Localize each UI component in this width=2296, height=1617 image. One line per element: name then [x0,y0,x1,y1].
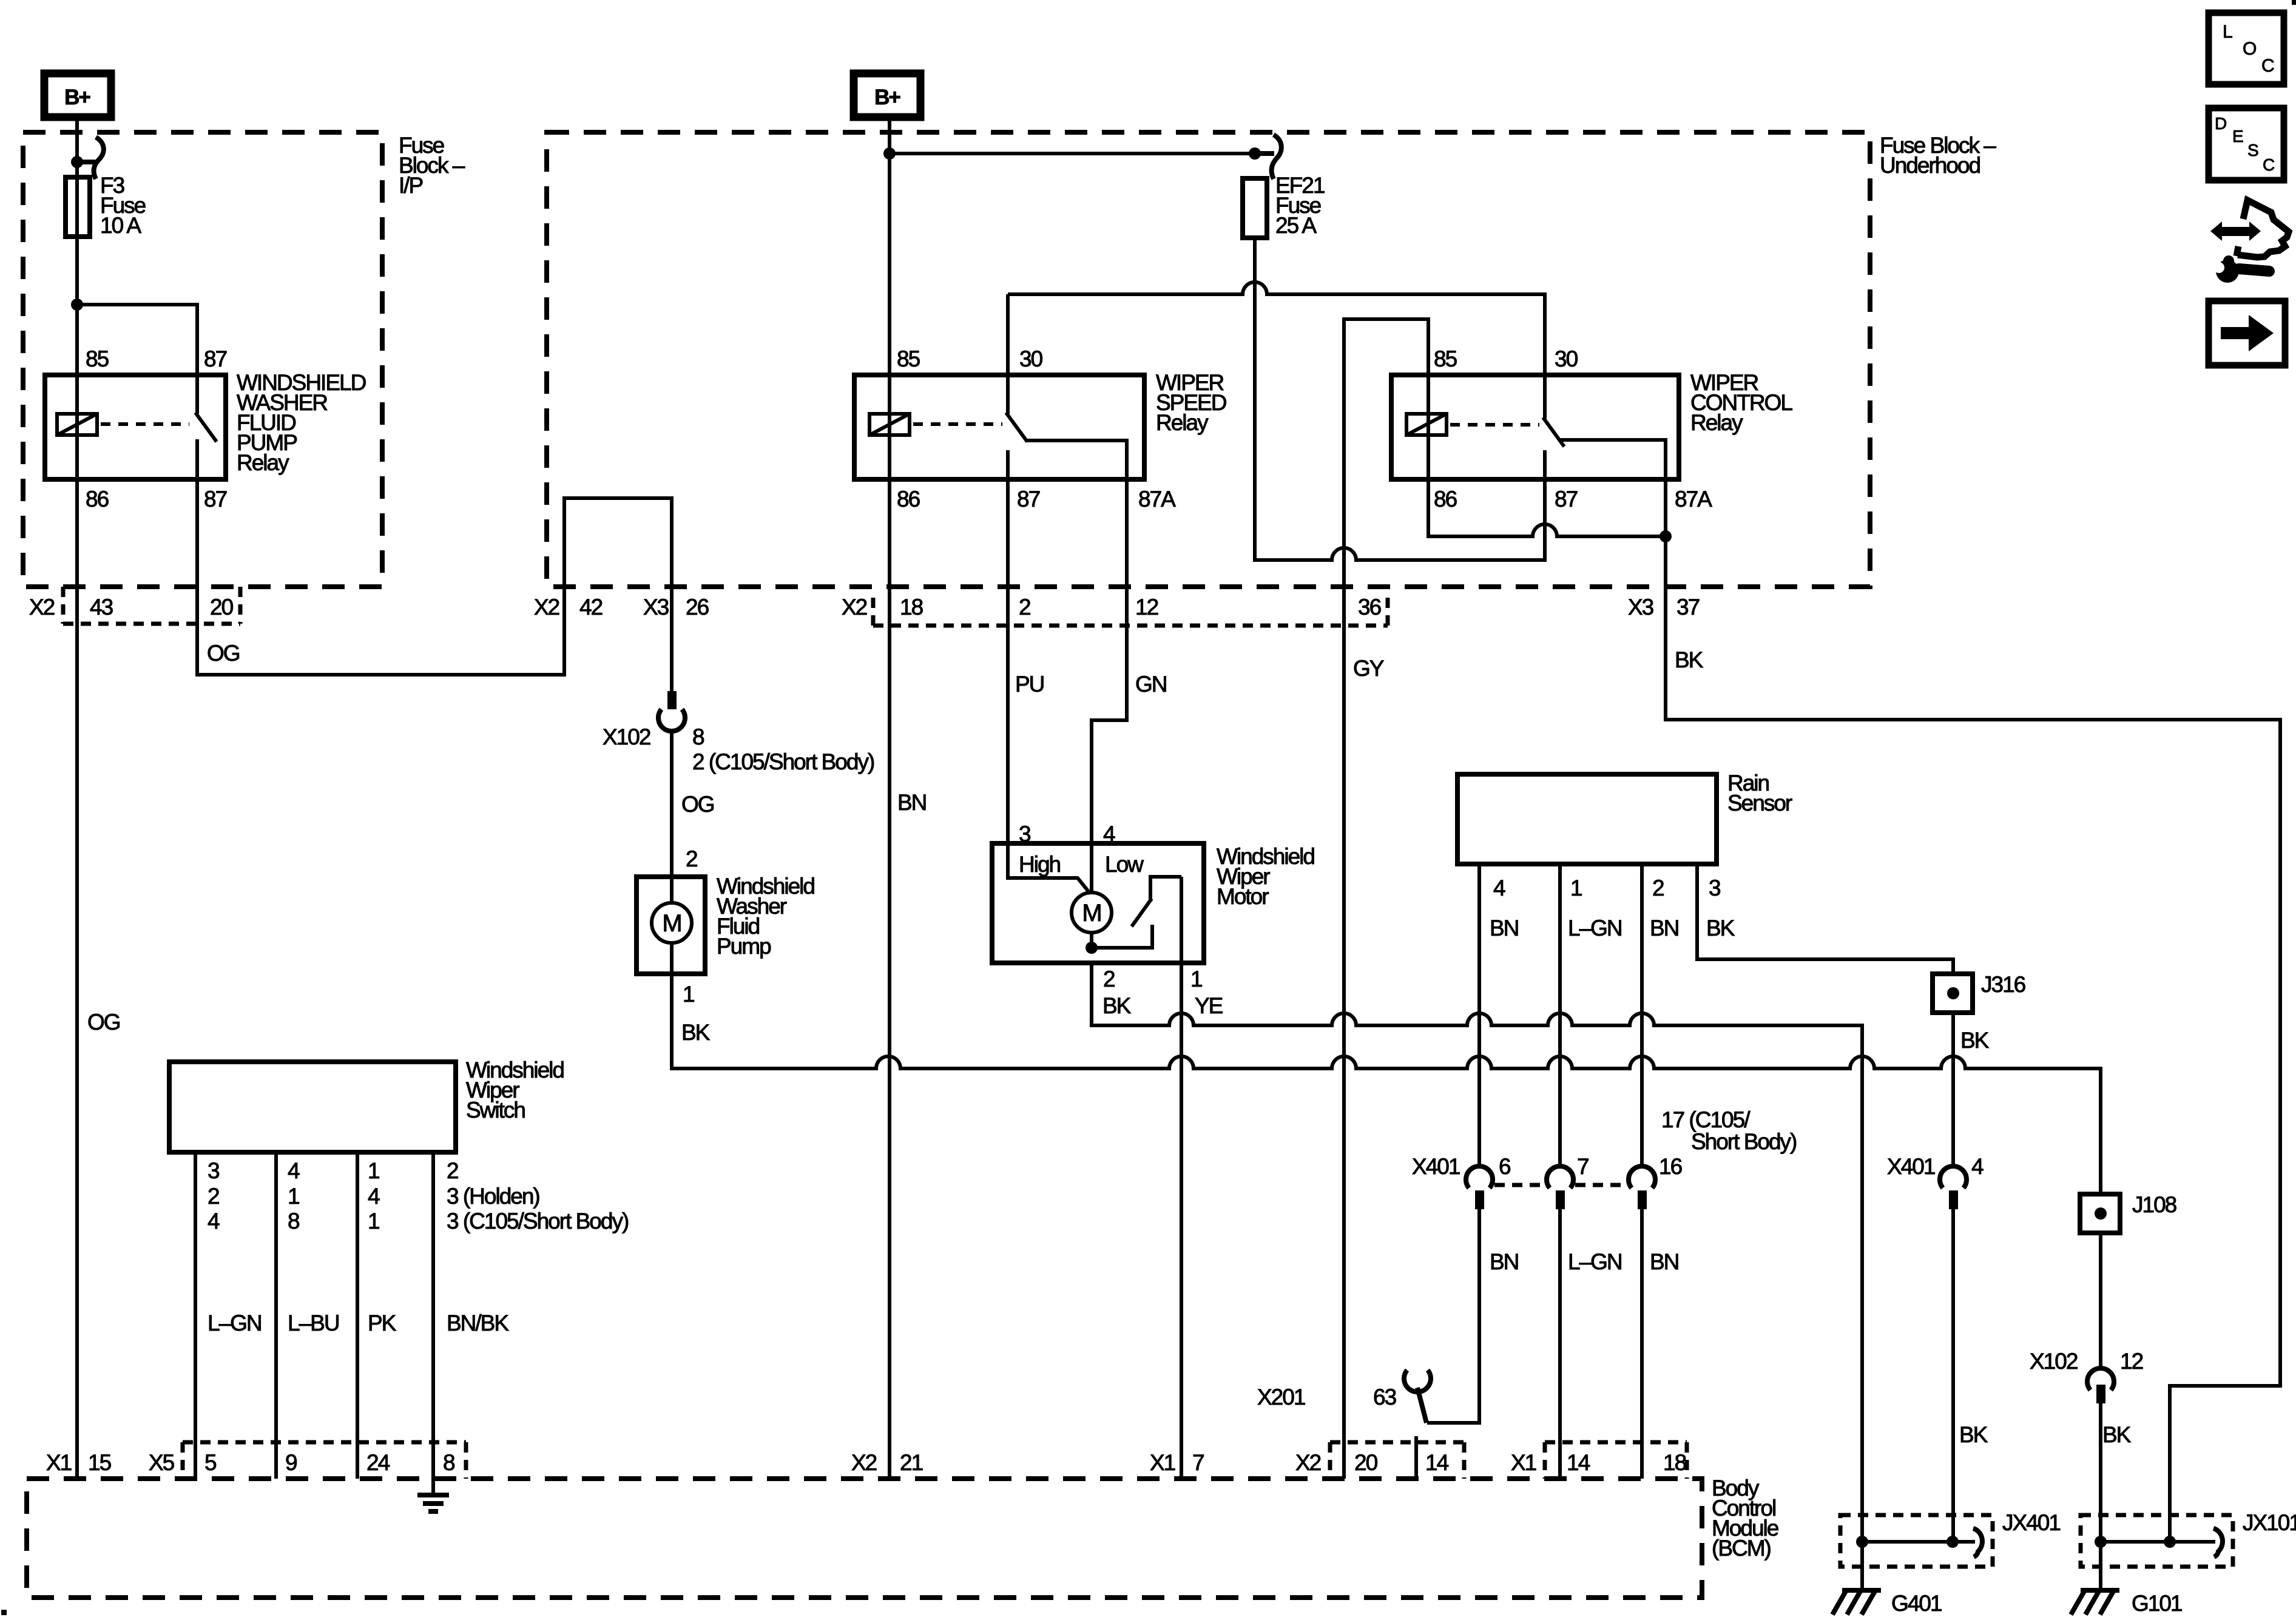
svg-text:X3: X3 [643,595,669,619]
svg-text:X1: X1 [46,1450,72,1475]
park switch lower contact [1092,925,1152,948]
svg-text:3: 3 [1709,876,1720,900]
relay R1 coil [57,414,97,435]
svg-text:BN: BN [1490,1249,1518,1274]
wire PU speed 87 to motor pin 3 High [1008,479,1090,894]
page mark bottom left [1,1610,7,1615]
wire B+2 junction to fuse EF21 [890,152,1255,155]
svg-text:9: 9 [285,1450,297,1475]
relay R2 87A contact [1025,441,1127,479]
connector label X2 bracket pins 18 2 12 36 [873,598,1388,626]
wire BK rain pin 3 to J316 [1697,864,1953,976]
wire L-GN wiper switch to BCM X5-5 [194,1152,197,1479]
JX401 curl [1973,1528,1982,1557]
svg-text:X102: X102 [2030,1349,2078,1374]
svg-text:L–GN: L–GN [1568,1249,1622,1274]
switch pin labels column 2 [288,1158,300,1234]
svg-text:8: 8 [443,1450,454,1475]
body control module dashed box [27,1479,1702,1598]
svg-text:18: 18 [900,595,923,619]
svg-text:1: 1 [368,1158,379,1183]
wire GN speed 87A to motor pin 4 Low [1092,479,1127,893]
ground G101 [2071,1589,2119,1615]
junction dot JX401 right [1947,1536,1959,1548]
svg-text:87: 87 [204,346,227,371]
svg-text:(BCM): (BCM) [1712,1536,1771,1561]
fuse F3 [66,173,146,238]
svg-text:Switch: Switch [466,1098,525,1122]
relay R3 name label [1690,370,1792,435]
connector X2 21 labels [851,1450,923,1475]
svg-text:X401: X401 [1887,1154,1935,1179]
icon DESC box [2209,108,2284,180]
svg-text:4: 4 [288,1158,300,1183]
svg-text:GN: GN [1135,672,1167,697]
junction dot 86-87A [1660,530,1672,542]
svg-text:Relay: Relay [1156,410,1209,435]
svg-text:1: 1 [288,1184,299,1209]
connector X102 8 labels [603,724,874,774]
svg-text:Relay: Relay [237,450,289,475]
svg-text:O: O [2243,39,2256,59]
wire speed relay pin 30 stub [1006,294,1010,414]
svg-text:GY: GY [1353,656,1384,681]
svg-text:12: 12 [2120,1349,2143,1374]
wire GY BCM X2-20 up to control relay pin 85 coil and pin 86 [1344,319,1666,1479]
svg-text:OG: OG [207,641,240,666]
junction dot B+1 [71,156,83,168]
svg-text:87: 87 [204,487,227,511]
svg-text:4: 4 [208,1209,220,1234]
svg-text:1: 1 [1190,967,1202,991]
svg-text:87A: 87A [1138,487,1176,511]
svg-text:C: C [2263,155,2275,174]
svg-text:17 (C105/: 17 (C105/ [1661,1107,1751,1132]
svg-text:2 (C105/Short Body): 2 (C105/Short Body) [692,749,874,774]
svg-text:BN: BN [1490,916,1518,940]
wire OG from relay 87 pin 20 to underhood X2-42 and X3-26 [197,479,672,691]
svg-text:BN: BN [897,790,926,815]
svg-text:63: 63 [1373,1385,1396,1409]
svg-text:8: 8 [288,1209,299,1234]
svg-text:Short Body): Short Body) [1691,1129,1797,1154]
svg-text:85: 85 [1434,346,1457,371]
connector X401 left label [1412,1154,1510,1179]
svg-text:Underhood: Underhood [1880,153,1980,178]
ground G401 [1832,1589,1881,1615]
svg-text:M: M [662,910,681,937]
connector label X3 26 [643,595,709,619]
connector X201 labels [1257,1385,1396,1409]
park switch upper contact to pin 1 [1150,877,1181,902]
relay R3 switch stub pin 30 [1543,376,1547,419]
svg-text:2: 2 [447,1158,458,1183]
connector X401 pin 7 cup and terminal [1547,1166,1573,1209]
svg-text:YE: YE [1195,993,1223,1018]
windshield wiper motor box [992,843,1204,963]
rain sensor box [1457,774,1717,864]
svg-text:S: S [2247,141,2258,160]
svg-text:43: 43 [90,595,113,619]
fuse block underhood dashed box [547,132,1870,587]
wire OG X102-8 to washer pump pin 2 [670,731,674,903]
svg-text:Low: Low [1105,852,1144,877]
wire BN rain pin 2 to X401-16 [1640,864,1644,1166]
wiper switch name label [466,1058,564,1122]
svg-text:BK: BK [2102,1422,2132,1447]
svg-text:X2: X2 [534,595,559,619]
connector X102 pin 8 female cup [658,709,685,731]
svg-text:BK: BK [681,1020,711,1045]
junction dot park switch [1086,942,1098,954]
svg-text:26: 26 [686,595,709,619]
switch pin labels column 3 [368,1158,380,1234]
relay R3 switch blade [1543,417,1564,447]
svg-text:L: L [2223,22,2232,42]
svg-text:BN: BN [1650,916,1678,940]
svg-text:J108: J108 [2132,1192,2176,1217]
svg-text:BK: BK [1959,1422,1988,1447]
svg-text:20: 20 [1354,1450,1378,1475]
wire PK wiper switch to BCM X5-24 [356,1152,359,1479]
svg-text:OG: OG [681,792,714,817]
relay R2 coil [869,414,910,435]
svg-text:15: 15 [88,1450,112,1475]
current path curl at B+1 [77,137,104,179]
JX101 internal bus [2101,1540,2215,1544]
connector X201 pin 63 cup [1404,1370,1431,1392]
wire L-GN rain pin 1 to X401-7 [1558,864,1562,1166]
connector X401 dashed link [1494,1183,1627,1187]
washer pump name label [717,874,814,959]
svg-text:Relay: Relay [1690,410,1743,435]
connector X1 7 labels [1150,1450,1204,1475]
svg-text:4: 4 [1971,1154,1984,1179]
relay R2 wiper speed relay box [854,375,1144,479]
svg-text:86: 86 [897,487,920,511]
svg-text:42: 42 [579,595,603,619]
splice J108 box [2080,1194,2120,1233]
svg-text:37: 37 [1676,595,1700,619]
svg-text:14: 14 [1567,1450,1590,1475]
JX101 curl [2213,1528,2223,1557]
wiper motor name label [1217,844,1314,909]
BCM name label [1712,1476,1778,1561]
wire L-BU wiper switch to BCM X5-9 [274,1152,278,1479]
svg-text:PU: PU [1015,672,1044,697]
wire L-GN below X401-7 to BCM X1-14 [1558,1209,1562,1479]
B+ battery symbol 1 [44,73,111,117]
svg-text:X2: X2 [29,595,55,619]
svg-text:E: E [2232,127,2243,146]
washer fluid pump box [636,877,705,974]
connector X2 I/P bracket pins 43 20 [63,587,240,624]
wire YE motor pin 1 to BCM X1-7 [1180,877,1183,1479]
svg-text:C: C [2261,56,2274,76]
svg-text:X2: X2 [851,1450,877,1475]
splice pack JX401 dashed box [1840,1515,1993,1567]
relay R1 switch stub pin 87 top [195,376,199,414]
svg-text:Pump: Pump [717,934,771,959]
svg-text:X1: X1 [1511,1450,1536,1475]
svg-text:B+: B+ [64,86,90,109]
connector X201 tail [1417,1388,1427,1423]
relay R3 pin 87 stub [1543,450,1547,479]
relay R3 wiper control relay box [1391,375,1679,479]
wire 30 feed speed relay to control relay pin 30 [1008,282,1545,376]
wire BK motor pin 2 ground bus to G401 [1092,963,1862,1590]
svg-text:High: High [1019,852,1061,877]
svg-text:16: 16 [1659,1154,1682,1179]
relay R2 switch blade [1006,413,1027,442]
connector label X3 37 [1628,595,1700,619]
svg-text:2: 2 [208,1184,219,1209]
svg-text:87: 87 [1017,487,1040,511]
svg-text:2: 2 [1652,876,1664,900]
B+ battery symbol 2 [854,73,920,117]
current path curl at EF21 [1255,135,1281,179]
junction dot B+2 [883,147,896,160]
svg-text:1: 1 [368,1209,379,1234]
switch pin labels column 4 [447,1158,629,1234]
svg-text:2: 2 [686,846,697,871]
svg-text:7: 7 [1577,1154,1589,1179]
svg-text:4: 4 [1493,876,1505,900]
svg-text:4: 4 [368,1184,380,1209]
junction dot JX101 right [2164,1536,2176,1548]
svg-text:L–BU: L–BU [288,1311,339,1335]
fuse block I/P dashed box [23,132,382,587]
svg-text:BK: BK [1960,1028,1990,1053]
rain sensor label [1727,771,1792,815]
junction dot JX101 left [2095,1536,2107,1548]
connector X401 pin 4 cup and terminal [1940,1166,1967,1209]
svg-text:D: D [2215,114,2226,133]
relay R1 coil-switch dashed link [101,422,189,426]
connector X102 pin 12 cup and terminal [2087,1368,2114,1403]
svg-text:5: 5 [204,1450,217,1475]
park switch blade [1132,899,1152,927]
svg-text:2: 2 [1103,967,1115,991]
wire B+1 feed down, relay R1 coil 85-86 to BCM X1-15 [75,117,79,1479]
wire X102-12 to JX101 [2099,1403,2102,1590]
connector X401 pin 6 cup and terminal [1466,1166,1493,1209]
svg-text:85: 85 [897,346,920,371]
svg-text:1: 1 [1570,876,1582,900]
svg-text:Motor: Motor [1217,884,1269,909]
connector label X2 42 [534,595,603,619]
connector X2 BCM bracket pins 20 14 [1330,1442,1464,1479]
relay R1 switch lower stub [195,439,199,479]
svg-text:30: 30 [1555,346,1578,371]
relay R3 coil-switch dashed link [1450,423,1539,427]
svg-text:86: 86 [86,487,109,511]
connector X102 pin 8 male terminal [667,691,677,709]
svg-text:X401: X401 [1412,1154,1460,1179]
relay R1 windshield washer fluid pump relay box [45,375,226,479]
svg-text:B+: B+ [874,86,900,109]
svg-text:BN: BN [1650,1249,1678,1274]
svg-text:G101: G101 [2132,1591,2182,1616]
relay R3 coil [1406,414,1447,435]
svg-text:2: 2 [1019,595,1030,619]
relay R1 name label [237,370,366,475]
svg-text:20: 20 [210,595,234,619]
svg-text:30: 30 [1019,346,1043,371]
svg-text:10 A: 10 A [100,213,141,238]
svg-text:8: 8 [692,724,704,749]
wire BN rain pin 4 to X401-6 [1477,864,1481,1166]
wire branch to relay R1 pin 87 switch [77,305,197,376]
JX401 internal bus [1862,1540,1975,1544]
svg-text:G401: G401 [1891,1591,1942,1616]
svg-text:PK: PK [368,1311,397,1335]
fuse block I/P label [399,133,465,198]
icon harness arrows and wrench [2210,200,2289,283]
svg-text:BK: BK [1675,647,1704,672]
wiper motor circle [1072,893,1112,933]
signal ground at BCM pin 8 [417,1495,449,1511]
svg-text:87: 87 [1555,487,1578,511]
relay R1 switch blade [195,413,217,442]
wire EF21 down and right to control relay pin 87 [1255,238,1545,560]
junction dot EF21 top [1249,147,1261,160]
wire B+2 feed down through speed relay coil to BCM X2-21 [888,117,891,1479]
splice pack JX101 dashed box [2081,1515,2233,1567]
svg-text:M: M [1082,900,1101,927]
page mark top right [2292,0,2296,5]
switch pin labels column 1 [208,1158,220,1234]
svg-text:86: 86 [1434,487,1457,511]
relay R2 name label [1156,370,1226,435]
icon arrow box [2209,301,2285,365]
motor lower wire and junction [1090,933,1093,948]
svg-text:Sensor: Sensor [1727,791,1792,815]
splice J316 box [1933,974,1973,1013]
svg-text:12: 12 [1135,595,1158,619]
wire BK washer pump ground bus to J108 [672,943,2101,1194]
connector X5 bracket [183,1442,466,1479]
relay R3 87A contact [1561,440,1666,479]
svg-text:87A: 87A [1675,487,1712,511]
svg-text:3 (Holden): 3 (Holden) [447,1184,539,1209]
svg-text:3 (C105/Short Body): 3 (C105/Short Body) [447,1209,629,1234]
svg-text:18: 18 [1663,1450,1686,1475]
wire BN below X401-6 to X201-63 [1427,1209,1479,1423]
wire BK below X401-4 to JX401 [1951,1209,1955,1542]
wire BK control 87A down right edge to JX101 [1561,440,2280,1542]
svg-text:14: 14 [1425,1450,1449,1475]
connector X102 12 labels [2030,1349,2143,1374]
junction dot JX401 left [1856,1536,1868,1548]
svg-text:X201: X201 [1257,1385,1305,1409]
svg-text:X5: X5 [149,1450,175,1475]
svg-text:JX101: JX101 [2243,1510,2296,1535]
junction dot at F3 branch [71,299,83,311]
svg-text:85: 85 [86,346,109,371]
svg-text:6: 6 [1499,1154,1510,1179]
svg-text:JX401: JX401 [2002,1510,2060,1535]
connector X1 BCM bracket pins 14 18 [1545,1442,1687,1479]
svg-text:L–GN: L–GN [1568,916,1622,940]
svg-text:J316: J316 [1981,972,2025,997]
fuse block underhood label [1880,133,1996,178]
windshield wiper switch box [169,1062,456,1152]
svg-text:I/P: I/P [399,173,423,198]
wire X201 to BCM X2-14 [1414,1436,1418,1479]
svg-text:25 A: 25 A [1275,213,1317,238]
svg-text:BK: BK [1102,993,1132,1018]
svg-text:21: 21 [900,1450,923,1475]
pin 17 note label [1661,1107,1797,1154]
wire BN/BK wiper switch to ground at BCM X5-8 [431,1152,435,1493]
svg-text:X102: X102 [603,724,650,749]
connector X401 pin 16 cup and terminal [1629,1166,1655,1209]
svg-text:X3: X3 [1628,595,1653,619]
relay R2 pin 87 stub [1006,450,1010,479]
connector X401 right label [1887,1154,1984,1179]
svg-text:3: 3 [208,1158,219,1183]
wire BN below X401-16 to BCM X1-18 [1640,1209,1644,1479]
wire BK J316 to X401-4 [1951,1013,1955,1166]
icon LOC box [2209,13,2284,84]
svg-text:OG: OG [87,1010,120,1035]
svg-text:7: 7 [1192,1450,1204,1475]
svg-text:L–GN: L–GN [208,1311,262,1335]
svg-text:36: 36 [1358,595,1381,619]
svg-text:X2: X2 [1295,1450,1321,1475]
wire J108 to X102-12 [2099,1233,2102,1368]
connector X1 15 labels [46,1450,112,1475]
svg-text:X1: X1 [1150,1450,1175,1475]
washer pump motor circle [652,903,692,943]
svg-text:BK: BK [1706,916,1735,940]
relay R2 coil-switch dashed link [913,422,1002,426]
svg-text:1: 1 [683,982,694,1007]
fuse EF21 [1243,173,1325,238]
svg-text:BN/BK: BN/BK [447,1311,509,1335]
svg-text:24: 24 [366,1450,390,1475]
svg-text:X2: X2 [842,595,867,619]
